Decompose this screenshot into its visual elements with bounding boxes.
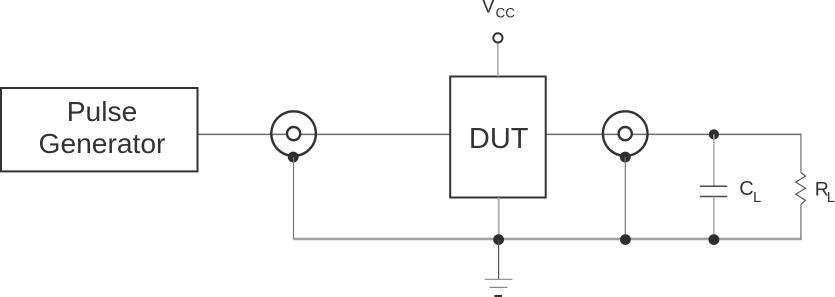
wire J1 shield down [293, 157, 295, 239]
svg-text:Pulse: Pulse [67, 95, 138, 127]
Vcc terminal circle [493, 33, 502, 42]
junction dot ground node [493, 234, 504, 245]
ground stem [498, 240, 500, 280]
coax connector J1 [271, 111, 316, 156]
junction dot J1 shield [288, 152, 299, 163]
junction dot J2 shield [620, 152, 631, 163]
ground bar 2 [489, 286, 507, 288]
svg-text:C: C [739, 178, 753, 200]
svg-text:CC: CC [496, 6, 516, 21]
ground bar 3 [494, 295, 502, 297]
svg-text:L: L [827, 189, 835, 206]
coax connector J2 [603, 111, 648, 156]
svg-text:Generator: Generator [39, 127, 166, 159]
resistor RL upper lead [800, 134, 802, 173]
DUT box [450, 77, 546, 198]
capacitor CL plates [700, 185, 728, 187]
resistor RL lower lead [800, 204, 802, 239]
wire J2 shield down [624, 157, 626, 239]
svg-text:DUT: DUT [469, 123, 529, 155]
junction dot J2 bottom [620, 234, 631, 245]
bottom bus wire [293, 238, 802, 241]
wire DUT to J2 to top-right corner [546, 133, 802, 135]
junction dot CL bottom [709, 234, 720, 245]
wire pulse generator to J1 to DUT [198, 133, 451, 135]
resistor RL zigzag [796, 173, 806, 205]
wire DUT bottom to ground node [498, 198, 500, 239]
ground bar 1 [485, 278, 513, 280]
svg-text:V: V [482, 0, 495, 18]
junction dot CL top [709, 129, 719, 139]
capacitor CL upper lead [713, 134, 715, 185]
pulse generator box [1, 88, 198, 171]
wire DUT to Vcc terminal [497, 42, 499, 76]
capacitor CL lower lead [713, 197, 715, 238]
svg-text:L: L [753, 189, 761, 206]
